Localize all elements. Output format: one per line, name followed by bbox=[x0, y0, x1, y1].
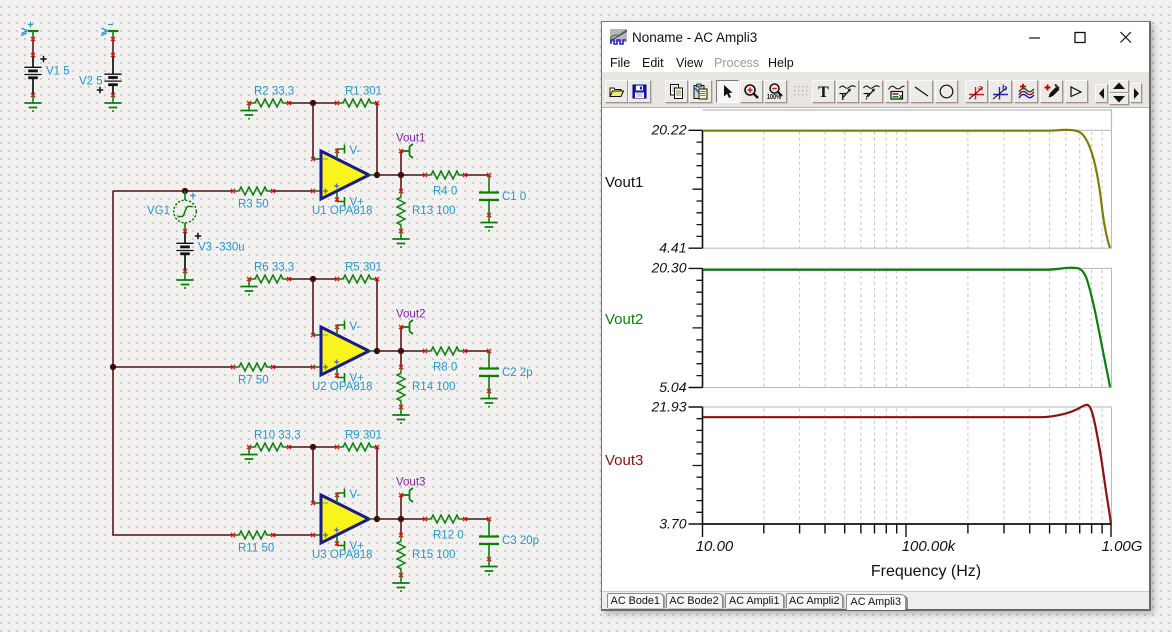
node output junction bbox=[374, 348, 380, 354]
svg-text:a: a bbox=[978, 83, 983, 93]
svg-text:R2 33,3: R2 33,3 bbox=[254, 86, 294, 98]
resistor R5 301 bbox=[337, 275, 377, 283]
svg-text:VG1: VG1 bbox=[147, 205, 170, 217]
node rail-stage2 junction bbox=[110, 364, 116, 370]
wire output bbox=[369, 174, 377, 176]
op-amp U2 OPA818 bbox=[321, 327, 369, 375]
svg-text:R12 0: R12 0 bbox=[433, 530, 464, 542]
node output junction bbox=[374, 172, 380, 178]
svg-text:R4 0: R4 0 bbox=[433, 186, 457, 198]
jumper marker + for V1 bbox=[21, 28, 28, 35]
svg-text:U1 OPA818: U1 OPA818 bbox=[312, 205, 373, 217]
svg-text:T: T bbox=[840, 92, 846, 101]
battery V3 bbox=[184, 231, 186, 243]
resistor R13 100 bbox=[400, 175, 402, 191]
svg-text:R5 301: R5 301 bbox=[345, 262, 382, 274]
subplot 2 frame bbox=[703, 268, 1112, 387]
resistor R10 33,3 bbox=[249, 443, 289, 451]
resistor R9 301 bbox=[337, 443, 377, 451]
svg-text:R3 50: R3 50 bbox=[238, 199, 269, 211]
resistor R6 33,3 bbox=[249, 275, 289, 283]
output pin Vout3 bbox=[400, 495, 402, 519]
svg-text:C1 0: C1 0 bbox=[502, 191, 526, 203]
power supply V1 bbox=[28, 30, 39, 32]
x axis bbox=[702, 523, 1112, 525]
svg-text:R14 100: R14 100 bbox=[412, 381, 455, 393]
svg-text:U2 OPA818: U2 OPA818 bbox=[312, 381, 373, 393]
ground below R13 bbox=[392, 239, 409, 244]
wire to inverting input bbox=[312, 103, 314, 159]
analysis window bbox=[601, 21, 1151, 611]
wire to non-inverting input bbox=[273, 366, 313, 368]
svg-text:R6 33,3: R6 33,3 bbox=[254, 262, 294, 274]
curve Vout3 bbox=[703, 405, 1111, 524]
svg-text:C3 20p: C3 20p bbox=[502, 535, 539, 547]
svg-text:V3 -330u: V3 -330u bbox=[198, 242, 245, 254]
svg-text:R9 301: R9 301 bbox=[345, 430, 382, 442]
ground for R10 bbox=[248, 447, 250, 454]
node Vout junction bbox=[398, 172, 404, 178]
wire to inverting input bbox=[312, 447, 314, 503]
wire left distribution rail bbox=[113, 191, 233, 535]
svg-text:R8 0: R8 0 bbox=[433, 362, 457, 374]
resistor R2 33,3 bbox=[249, 99, 289, 107]
node inverting input junction bbox=[310, 100, 316, 106]
ground below R14 bbox=[392, 415, 409, 420]
resistor R4 0 bbox=[425, 171, 465, 179]
svg-text:U3 OPA818: U3 OPA818 bbox=[312, 549, 373, 561]
wire feedback to output bbox=[376, 447, 378, 519]
op-amp U3 OPA818 bbox=[321, 495, 369, 543]
svg-text:V+: V+ bbox=[350, 373, 365, 385]
wire feedback to output bbox=[376, 279, 378, 351]
svg-text:?: ? bbox=[865, 92, 870, 101]
wire top row to VG1 and R3 bbox=[113, 190, 233, 192]
node Vout junction bbox=[398, 348, 404, 354]
node Vout junction bbox=[398, 516, 404, 522]
wire to inverting input bbox=[312, 279, 314, 335]
node inverting input junction bbox=[310, 276, 316, 282]
svg-text:V-: V- bbox=[350, 489, 361, 501]
chart frame top bbox=[703, 110, 1112, 130]
resistor R3 50 bbox=[233, 187, 273, 195]
svg-text:Vout3: Vout3 bbox=[396, 477, 425, 489]
svg-text:T: T bbox=[818, 84, 829, 100]
wire to non-inverting input bbox=[273, 190, 313, 192]
svg-text:R1 301: R1 301 bbox=[345, 86, 382, 98]
pin V+ supply bbox=[337, 193, 345, 207]
wire feedback row bbox=[289, 446, 337, 448]
ground for R6 bbox=[248, 279, 250, 286]
svg-text:V-: V- bbox=[350, 321, 361, 333]
ground below C2 bbox=[480, 399, 497, 404]
wire to capacitor bbox=[465, 350, 489, 352]
output pin Vout2 bbox=[400, 327, 402, 351]
pin V- supply bbox=[337, 489, 345, 503]
subplot 1 y-axis bbox=[702, 130, 704, 248]
pin V+ supply bbox=[337, 369, 345, 383]
jumper marker - for V2 bbox=[101, 28, 108, 35]
resistor R15 100 bbox=[400, 519, 402, 535]
wire to capacitor bbox=[465, 518, 489, 520]
resistor R8 0 bbox=[425, 347, 465, 355]
svg-text:b: b bbox=[1002, 83, 1007, 93]
capacitor C1 0 bbox=[488, 175, 490, 215]
svg-text:V+: V+ bbox=[350, 197, 365, 209]
svg-text:100%: 100% bbox=[767, 94, 782, 100]
ground below R15 bbox=[392, 583, 409, 588]
curve Vout1 bbox=[703, 130, 1110, 248]
ground below V3 bbox=[176, 280, 193, 285]
resistor R11 50 bbox=[233, 531, 273, 539]
node output junction bbox=[374, 516, 380, 522]
svg-text:Vout1: Vout1 bbox=[396, 133, 425, 145]
wire feedback row bbox=[289, 102, 337, 104]
pin V- supply bbox=[337, 145, 345, 159]
resistor R7 50 bbox=[233, 363, 273, 371]
resistor R1 301 bbox=[337, 99, 377, 107]
subplot 3 y-axis bbox=[702, 407, 704, 524]
wire to non-inverting input bbox=[273, 534, 313, 536]
svg-text:R7 50: R7 50 bbox=[238, 375, 269, 387]
svg-text:V-: V- bbox=[350, 145, 361, 157]
svg-text:V+: V+ bbox=[350, 541, 365, 553]
wire feedback row bbox=[289, 278, 337, 280]
svg-text:Vout2: Vout2 bbox=[396, 309, 425, 321]
pin V- supply bbox=[337, 321, 345, 335]
svg-text:R15 100: R15 100 bbox=[412, 549, 455, 561]
svg-text:R10 33,3: R10 33,3 bbox=[254, 430, 301, 442]
resistor R12 0 bbox=[425, 515, 465, 523]
voltage generator VG1 bbox=[182, 188, 188, 194]
svg-text:R11 50: R11 50 bbox=[238, 543, 274, 555]
capacitor C3 20p bbox=[488, 519, 490, 559]
resistor R14 100 bbox=[400, 351, 402, 367]
ground below C1 bbox=[480, 223, 497, 228]
subplot 2 y-axis bbox=[702, 268, 704, 387]
pin V+ supply bbox=[337, 537, 345, 551]
svg-text:V1 5: V1 5 bbox=[46, 66, 70, 78]
ground for R2 bbox=[248, 103, 250, 110]
subplot 3 frame bbox=[703, 407, 1112, 524]
wire to capacitor bbox=[465, 174, 489, 176]
svg-text:R13 100: R13 100 bbox=[412, 205, 455, 217]
svg-text:V2 5: V2 5 bbox=[79, 76, 103, 88]
subplot 1 frame bbox=[703, 130, 1112, 248]
wire output bbox=[369, 350, 377, 352]
wire feedback to output bbox=[376, 103, 378, 175]
curve Vout2 bbox=[703, 268, 1110, 387]
op-amp U1 OPA818 bbox=[321, 151, 369, 199]
ground below C3 bbox=[480, 567, 497, 572]
power supply V2 bbox=[108, 30, 119, 32]
svg-text:C2 2p: C2 2p bbox=[502, 367, 533, 379]
node inverting input junction bbox=[310, 444, 316, 450]
capacitor C2 2p bbox=[488, 351, 490, 391]
wire output bbox=[369, 518, 377, 520]
output pin Vout1 bbox=[400, 151, 402, 175]
